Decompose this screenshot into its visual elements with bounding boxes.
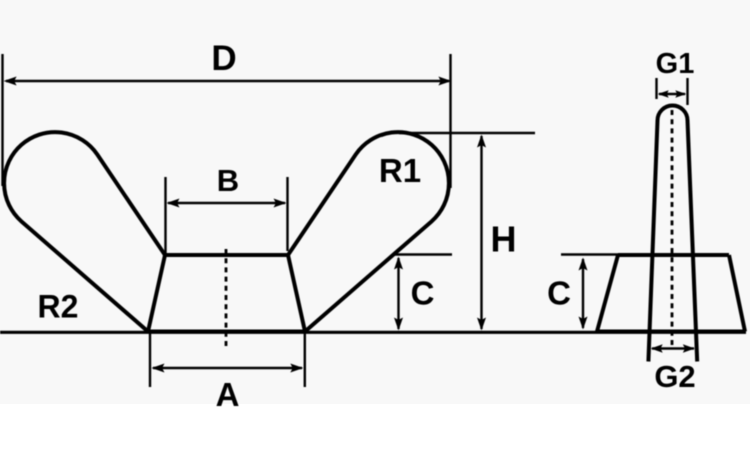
- dimension B extension line left: [164, 177, 166, 253]
- dimension D extension line right: [449, 54, 451, 188]
- dimension C front extension line: [393, 253, 452, 255]
- side view base trapezoid: [597, 255, 745, 332]
- arrowhead B left: [167, 199, 180, 208]
- dimension G2 arrow line: [652, 347, 694, 349]
- dimension H arrow line: [480, 136, 482, 329]
- wire baseline ground line: [0, 331, 746, 334]
- arrowhead A right: [290, 364, 303, 373]
- centerline front view dotted: [225, 249, 228, 346]
- dimension C front arrow line: [397, 258, 399, 329]
- dimension G1 extension line left: [655, 78, 657, 99]
- svg-text:B: B: [217, 163, 239, 198]
- svg-text:D: D: [211, 39, 236, 78]
- dimension D arrow line: [6, 80, 449, 82]
- dimension G1 extension line right: [686, 78, 688, 105]
- dimension C side arrow line: [582, 259, 584, 328]
- centerline side view dotted: [671, 110, 674, 345]
- dimension A extension line left: [149, 334, 151, 388]
- arrowhead G2 right: [683, 344, 695, 352]
- svg-text:R2: R2: [38, 289, 79, 325]
- arrowhead C side top: [579, 258, 588, 271]
- arrowhead D left: [4, 77, 17, 86]
- dimension H extension line top: [399, 132, 535, 134]
- arrowhead G1 right: [675, 90, 686, 98]
- wing nut front view body trapezoid: [148, 255, 305, 332]
- dimension B extension line right: [286, 177, 288, 251]
- dimension D extension line left: [1, 54, 3, 186]
- dimension A arrow line: [153, 367, 302, 369]
- wing right: [288, 132, 449, 331]
- arrowhead G2 left: [651, 344, 663, 352]
- arrowhead C front bottom: [394, 318, 403, 331]
- svg-text:R1: R1: [379, 152, 421, 189]
- arrowhead H top: [477, 135, 486, 148]
- arrowhead C front top: [394, 257, 403, 270]
- arrowhead A left: [152, 364, 165, 373]
- arrowhead C side bottom: [579, 317, 588, 330]
- svg-text:G2: G2: [654, 359, 695, 394]
- arrowhead D right: [438, 77, 451, 86]
- svg-text:C: C: [547, 275, 571, 312]
- dimension A extension line right: [304, 334, 306, 388]
- wing left: [4, 132, 165, 331]
- svg-text:H: H: [491, 219, 517, 260]
- arrowhead B right: [274, 199, 287, 208]
- svg-text:C: C: [411, 275, 435, 312]
- side view wing profile: [648, 106, 697, 362]
- dimension B arrow line: [168, 202, 285, 204]
- svg-text:A: A: [216, 376, 240, 413]
- arrowhead H bottom: [477, 318, 486, 331]
- arrowhead G1 left: [658, 90, 669, 98]
- svg-text:G1: G1: [656, 48, 695, 80]
- dimension C side extension line: [561, 253, 618, 255]
- dimension G1 arrow line: [659, 93, 685, 95]
